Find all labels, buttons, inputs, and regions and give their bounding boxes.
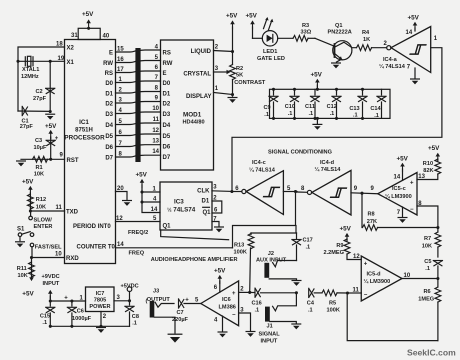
svg-text:C15: C15: [40, 314, 50, 320]
bypass capacitor bank rails: [270, 89, 391, 118]
svg-text:D4: D4: [105, 123, 113, 129]
svg-text:D2: D2: [163, 102, 171, 108]
svg-text:IC4-c: IC4-c: [252, 160, 266, 166]
svg-text:D1: D1: [202, 198, 210, 204]
svg-text:−: −: [364, 292, 368, 298]
+5V feeding LED1: [246, 13, 263, 39]
svg-text:+5V: +5V: [82, 11, 94, 18]
svg-text:½ 74LS74: ½ 74LS74: [167, 207, 196, 214]
svg-text:C13: C13: [349, 106, 359, 112]
svg-text:LM386: LM386: [219, 304, 236, 310]
wire IC5-c pin 8 minus input: [417, 201, 439, 229]
+5V above contrast pot: [226, 13, 238, 65]
wire X1 pin 19: [16, 56, 64, 63]
svg-text:CLK: CLK: [197, 188, 210, 194]
ground at IC4-a pin 7: [411, 68, 420, 84]
+5V at IC6 pin 6: [214, 267, 226, 292]
svg-text:7805: 7805: [94, 297, 106, 303]
+5V at IC4-a pin 14: [408, 15, 420, 32]
+5V to capacitor bank: [311, 71, 323, 91]
svg-text:C16: C16: [252, 300, 262, 306]
ground left of R1: [17, 161, 26, 166]
svg-text:¼ 74LS14: ¼ 74LS14: [249, 166, 276, 173]
svg-text:8: 8: [155, 86, 159, 92]
svg-text:4: 4: [155, 44, 159, 50]
capacitor C13 .1: [349, 88, 367, 120]
svg-text:3: 3: [117, 295, 121, 301]
svg-text:Q1: Q1: [163, 223, 172, 229]
svg-text:Q1: Q1: [335, 23, 342, 29]
svg-text:R9: R9: [336, 243, 343, 249]
svg-text:D6: D6: [163, 145, 171, 151]
svg-text:−: −: [410, 207, 414, 213]
svg-text:10: 10: [152, 106, 159, 112]
stub under IC3: [161, 230, 229, 240]
svg-text:4: 4: [214, 317, 218, 323]
svg-text:+: +: [64, 296, 68, 302]
svg-text:10K: 10K: [422, 243, 432, 249]
capacitor C10 .1: [285, 88, 299, 120]
capacitor C16 .1: [251, 288, 298, 313]
svg-text:13: 13: [418, 174, 425, 180]
svg-text:X1: X1: [67, 60, 75, 66]
svg-text:ENTER: ENTER: [34, 224, 53, 230]
svg-text:13: 13: [152, 139, 159, 145]
svg-text:14: 14: [151, 207, 158, 213]
svg-text:J1: J1: [267, 324, 273, 330]
svg-text:X2: X2: [67, 46, 75, 52]
resistor R7 10K: [422, 228, 441, 258]
svg-text:IC7: IC7: [96, 291, 105, 297]
svg-text:¼ LM3900: ¼ LM3900: [385, 193, 412, 200]
wire TXD pin 11: [29, 205, 65, 213]
ground for J3 sleeve: [168, 334, 182, 342]
capacitor C6 1000uF: [67, 301, 91, 326]
svg-text:.1: .1: [264, 112, 269, 118]
svg-text:D3: D3: [105, 112, 113, 118]
svg-text:.1: .1: [353, 113, 358, 119]
svg-text:.1: .1: [425, 266, 430, 272]
svg-text:7: 7: [155, 75, 159, 81]
potentiometer R2 5K contrast: [230, 65, 266, 97]
op-amp IC4-c 1/4 74LS14 schmitt: [230, 160, 283, 215]
svg-text:AUX INPUT: AUX INPUT: [256, 258, 287, 264]
op-amp IC5-d 1/4 LM3900: [361, 256, 402, 301]
+5V at IC5-c pin 14: [397, 155, 409, 180]
svg-text:C11: C11: [305, 104, 315, 110]
wire RXD pin 10: [30, 251, 65, 259]
svg-text:.1: .1: [308, 307, 313, 313]
wire IC6 pin 3 to ground: [239, 307, 255, 337]
IC1 side pin numbers and port labels: [103, 46, 124, 161]
svg-text:D7: D7: [105, 155, 113, 161]
MOD1 HD44780 LCD module box: [161, 40, 214, 170]
transistor Q1 PN2222A: [315, 23, 356, 62]
svg-text:PN2222A: PN2222A: [328, 30, 352, 36]
IC3 pin 2 to pin 6 loop wire: [212, 195, 222, 213]
svg-text:DISPLAY: DISPLAY: [186, 94, 211, 100]
LED1 gate LED: [257, 17, 285, 62]
svg-text:1000µF: 1000µF: [72, 316, 92, 322]
jack J3 output: [146, 289, 176, 333]
op-amp IC5-c 1/4 LM3900: [371, 173, 418, 217]
IC3 pin 7 ground: [212, 216, 223, 232]
wire 7805 pin 3 output: [114, 295, 131, 302]
svg-text:C6: C6: [77, 309, 84, 315]
svg-text:+: +: [55, 136, 59, 142]
svg-text:1: 1: [434, 36, 438, 42]
svg-text:HD44/80: HD44/80: [183, 120, 205, 126]
svg-text:D5: D5: [163, 134, 171, 140]
svg-text:J3: J3: [153, 289, 159, 295]
svg-text:+: +: [232, 291, 236, 297]
7805 pin 2 to ground: [97, 312, 107, 333]
wire IC4-c output pin 5 node: [283, 186, 297, 193]
crystal XTAL1 12MHz: [21, 56, 39, 80]
svg-text:D2: D2: [105, 101, 113, 107]
svg-text:11: 11: [153, 117, 160, 123]
svg-text:D0: D0: [105, 81, 113, 87]
svg-text:+: +: [185, 297, 189, 303]
svg-text:R6: R6: [424, 289, 431, 295]
svg-text:17: 17: [117, 67, 124, 73]
svg-text:FREQ: FREQ: [129, 250, 145, 256]
svg-text:R1: R1: [36, 165, 43, 171]
feedback return wire to pin 11: [347, 293, 438, 341]
capacitor C14 .1: [370, 89, 386, 119]
svg-text:9: 9: [371, 186, 375, 192]
svg-text:9: 9: [60, 153, 64, 159]
svg-text:+5V: +5V: [428, 145, 440, 152]
ground for J1 sleeve: [292, 324, 301, 329]
svg-text:10: 10: [55, 251, 62, 257]
svg-text:COUNTER T0: COUNTER T0: [77, 245, 116, 251]
wire MOD1 pin 3 contrast wiper with arrow: [214, 66, 231, 74]
IC1 power sub-box pins 31/40: [71, 28, 110, 39]
op-amp IC4-a 1/4 74LS14 schmitt: [379, 27, 431, 73]
svg-text:Q1: Q1: [203, 210, 212, 216]
svg-text:(: (: [146, 299, 148, 305]
capacitor C15 .1: [40, 301, 55, 326]
svg-text:E: E: [109, 50, 113, 56]
svg-text:IC4-d: IC4-d: [320, 160, 335, 166]
svg-text:+5V: +5V: [311, 71, 323, 78]
rail joining R13 and C17: [251, 232, 297, 234]
svg-text:¼ 74LS14: ¼ 74LS14: [379, 63, 406, 70]
resistor R8 27K feedback: [362, 193, 438, 230]
svg-text:2.2MEG: 2.2MEG: [323, 250, 344, 256]
ground for J2 sleeve: [292, 281, 301, 286]
ground for S1 common: [16, 242, 25, 247]
svg-text:+5V: +5V: [214, 267, 226, 274]
+5V below R11: [22, 273, 34, 298]
svg-text:33Ω: 33Ω: [301, 30, 312, 36]
svg-text:J2: J2: [268, 251, 274, 257]
op-amp IC6 LM386 power amp: [195, 281, 239, 326]
svg-text:¼ 74LS14: ¼ 74LS14: [315, 166, 342, 173]
svg-text:40: 40: [103, 33, 110, 39]
svg-text:C7: C7: [177, 310, 184, 316]
svg-text:D7: D7: [163, 155, 171, 161]
resistor R1 10K on RST: [21, 153, 65, 178]
wire input rail to 7805 pin 1: [49, 296, 86, 303]
svg-text:14: 14: [394, 174, 401, 180]
svg-text:IC3: IC3: [174, 199, 184, 206]
jack J2 aux input: [256, 251, 297, 280]
svg-text:5: 5: [195, 297, 199, 303]
svg-text:+5V: +5V: [136, 171, 148, 178]
svg-text:IC5-c: IC5-c: [392, 186, 406, 192]
svg-text:100K: 100K: [234, 249, 247, 255]
svg-text:POWER: POWER: [89, 304, 110, 310]
svg-text:SIGNAL CONDITIONING: SIGNAL CONDITIONING: [268, 149, 332, 155]
svg-text:+: +: [364, 261, 368, 267]
svg-text:C2: C2: [36, 89, 43, 95]
svg-text:IC4-a: IC4-a: [383, 57, 398, 63]
svg-text:10: 10: [404, 273, 411, 279]
svg-text:16: 16: [117, 57, 124, 63]
resistor R12 10K: [28, 193, 47, 211]
svg-text:2: 2: [240, 286, 244, 292]
svg-text:+5V: +5V: [340, 225, 352, 232]
svg-text:RW: RW: [163, 61, 173, 67]
svg-text:31: 31: [71, 33, 78, 39]
wire MOD1 pin 2 to +5V rail: [214, 45, 235, 54]
svg-text:D0: D0: [163, 81, 171, 87]
svg-text:C8: C8: [132, 314, 139, 320]
svg-text:GATE LED: GATE LED: [257, 56, 285, 62]
svg-text:D1: D1: [105, 91, 113, 97]
svg-text:6: 6: [214, 285, 218, 291]
svg-text:R11: R11: [17, 266, 27, 272]
+5V supply above IC1: [82, 11, 94, 30]
resistor R5 100K: [322, 290, 349, 313]
+5VDC output terminal: [121, 284, 139, 301]
capacitor C2 27pF: [33, 60, 55, 112]
svg-text:18: 18: [56, 42, 63, 48]
svg-text:RW: RW: [103, 61, 113, 67]
svg-text:1MEG: 1MEG: [418, 296, 434, 302]
svg-text:¼ LM3900: ¼ LM3900: [364, 278, 391, 285]
resistor R11 10K: [17, 258, 35, 280]
svg-text:2: 2: [103, 314, 107, 320]
svg-text:CONTRAST: CONTRAST: [234, 80, 266, 86]
+5V for reset RC: [45, 123, 57, 139]
svg-text:IC5-d: IC5-d: [367, 271, 382, 277]
svg-text:11: 11: [353, 287, 360, 293]
ground under C2 node: [46, 114, 55, 119]
wire IC4-d output pin 9 node: [351, 186, 378, 195]
svg-text:220µF: 220µF: [172, 317, 189, 323]
data bus IC1 to MOD1 with crossing wires: [116, 48, 161, 162]
svg-text:C5: C5: [424, 259, 431, 265]
svg-text:S1: S1: [17, 227, 25, 233]
svg-text:27pF: 27pF: [33, 96, 47, 102]
resistor R6 1MEG: [418, 279, 441, 341]
svg-text:AUDIO/HEADPHONE AMPLIFIER: AUDIO/HEADPHONE AMPLIFIER: [151, 257, 238, 263]
svg-text:+5V: +5V: [408, 15, 420, 22]
capacitor C1 27pF: [18, 106, 52, 130]
jack J1 signal input: [259, 293, 297, 345]
wire X2 pin 18: [18, 42, 65, 111]
svg-text:CRYSTAL: CRYSTAL: [183, 72, 211, 78]
svg-text:C17: C17: [303, 238, 313, 244]
svg-text:R13: R13: [234, 242, 244, 248]
svg-text:1K: 1K: [363, 37, 370, 43]
svg-text:R4: R4: [362, 30, 370, 36]
svg-text:PROCESSOR: PROCESSOR: [64, 135, 105, 142]
svg-text:11: 11: [56, 205, 63, 211]
svg-text:FREQ/2: FREQ/2: [128, 230, 148, 236]
capacitor C3 10uF: [34, 136, 59, 160]
resistor R13 100K: [234, 233, 254, 292]
svg-text:10µF: 10µF: [34, 145, 47, 151]
svg-text:XTAL1: XTAL1: [22, 67, 39, 73]
MOD1 side pin numbers and labels: [152, 44, 172, 161]
svg-text:5: 5: [155, 55, 159, 61]
svg-text:+: +: [410, 180, 414, 186]
ground at IC5-c pin 7: [398, 207, 407, 223]
svg-text:R2: R2: [236, 66, 243, 72]
svg-text:LIQUID: LIQUID: [191, 49, 212, 55]
svg-text:+9VDC: +9VDC: [42, 274, 60, 280]
ground under Q1 emitter: [332, 63, 341, 68]
svg-text:+5V: +5V: [22, 178, 34, 185]
svg-text:SeekIC.com: SeekIC.com: [407, 348, 456, 358]
svg-text:.1: .1: [288, 111, 293, 117]
svg-text:14: 14: [152, 149, 159, 155]
svg-text:+5V: +5V: [397, 155, 409, 162]
svg-text:12: 12: [353, 254, 360, 260]
svg-text:E: E: [163, 71, 167, 77]
svg-text:.1: .1: [132, 320, 137, 326]
svg-text:2: 2: [215, 45, 219, 51]
svg-text:8: 8: [301, 186, 305, 192]
svg-text:MOD1: MOD1: [183, 112, 202, 119]
svg-text:D4: D4: [163, 123, 171, 129]
svg-text:27K: 27K: [367, 219, 377, 225]
svg-text:10K: 10K: [18, 273, 28, 279]
ground at IC6 pin 4: [218, 316, 227, 337]
wire IC4-a output pin 1 feedback to signal conditioning: [232, 36, 442, 192]
svg-text:12: 12: [116, 216, 123, 222]
svg-text:+5V: +5V: [22, 290, 34, 297]
svg-text:.1: .1: [374, 113, 379, 119]
wire IC5-d output pin 10: [402, 273, 439, 280]
ground rail under power section: [49, 325, 130, 328]
ground under capacitor bank: [313, 117, 322, 130]
svg-text:R3: R3: [302, 23, 309, 29]
capacitor C12 .1: [327, 88, 342, 120]
svg-text:19: 19: [58, 56, 65, 62]
svg-text:SIGNAL: SIGNAL: [259, 331, 281, 337]
svg-text:RXD: RXD: [66, 256, 79, 262]
capacitor C5 .1: [424, 259, 442, 279]
svg-text:INPUT: INPUT: [43, 281, 60, 287]
svg-text:LED1: LED1: [263, 49, 277, 55]
IC3 1/2 74LS74 flip-flop box: [151, 182, 212, 230]
svg-text:5K: 5K: [236, 73, 243, 79]
svg-text:D3: D3: [163, 112, 171, 118]
svg-text:INPUT: INPUT: [261, 339, 278, 345]
svg-text:PERIOD INT0: PERIOD INT0: [73, 224, 111, 230]
svg-text:3: 3: [215, 66, 219, 72]
svg-text:IC1: IC1: [79, 119, 89, 126]
capacitor C11 .1: [305, 89, 320, 120]
svg-text:SLOW/: SLOW/: [34, 217, 53, 223]
svg-text:D5: D5: [105, 134, 113, 140]
svg-text:C14: C14: [370, 106, 381, 112]
svg-text:R7: R7: [424, 236, 431, 242]
svg-text:27pF: 27pF: [20, 124, 34, 130]
svg-text:8751H: 8751H: [75, 128, 93, 134]
capacitor C4 .1: [307, 288, 322, 313]
svg-text:C3: C3: [35, 138, 42, 144]
wire FREQ IC1 pin 14: [116, 242, 233, 256]
+9VDC input terminal: [42, 274, 60, 301]
IC7 7805 power regulator box: [86, 287, 115, 312]
svg-text:R5: R5: [329, 300, 336, 306]
svg-text:100K: 100K: [327, 307, 340, 313]
ground below R2: [228, 98, 237, 103]
svg-text:+5V: +5V: [226, 13, 238, 20]
svg-text:−: −: [232, 312, 236, 318]
+5V above R12: [22, 178, 34, 194]
svg-text:IC6: IC6: [222, 297, 231, 303]
capacitor C9 .1: [264, 88, 279, 120]
svg-text:.1: .1: [255, 307, 260, 313]
svg-text:7: 7: [407, 65, 411, 71]
wire IC3 CLK pin 3 from schmitt: [212, 184, 232, 191]
svg-text:.1: .1: [330, 111, 335, 117]
svg-text:12MHz: 12MHz: [21, 74, 39, 80]
svg-text:10K: 10K: [36, 205, 46, 211]
svg-text:RST: RST: [67, 158, 79, 164]
svg-text:C10: C10: [285, 104, 295, 110]
svg-text:RS: RS: [105, 71, 113, 77]
svg-text:14: 14: [406, 30, 413, 36]
svg-text:C12: C12: [327, 104, 337, 110]
IC1 8751H processor box: [64, 40, 115, 264]
resistor R9 2.2MEG from +5V: [323, 225, 361, 260]
wire IC1 pin 20 to ground: [116, 186, 132, 206]
svg-text:9: 9: [155, 96, 159, 102]
svg-text:TXD: TXD: [66, 210, 79, 216]
svg-text:R12: R12: [36, 197, 46, 203]
svg-text:C9: C9: [264, 105, 271, 111]
svg-text:R8: R8: [368, 211, 375, 217]
svg-text:1: 1: [215, 86, 219, 92]
svg-text:14: 14: [117, 242, 124, 248]
resistor R3 33ohm: [278, 23, 315, 41]
wire FREQ/2 IC1 pin 12 to IC3 pin 5: [116, 216, 161, 236]
capacitor C17 .1: [292, 233, 313, 261]
capacitor C8 .1: [125, 301, 139, 327]
svg-text:15: 15: [117, 46, 124, 52]
svg-text:C4: C4: [307, 300, 315, 306]
wire IC4-c node down to coupling network: [233, 192, 297, 248]
svg-text:D1: D1: [163, 92, 171, 98]
svg-text:.1: .1: [42, 320, 47, 326]
svg-text:R10: R10: [423, 161, 433, 167]
svg-text:3: 3: [213, 184, 217, 190]
switch S1 slow/enter fast/sel: [17, 211, 62, 258]
resistor R10 82K to +5V: [417, 145, 441, 180]
resistor R4 1K: [357, 30, 388, 51]
op-amp IC4-d 1/4 74LS14 schmitt: [297, 160, 351, 215]
svg-text:20: 20: [117, 186, 124, 192]
svg-text:D6: D6: [105, 145, 113, 151]
